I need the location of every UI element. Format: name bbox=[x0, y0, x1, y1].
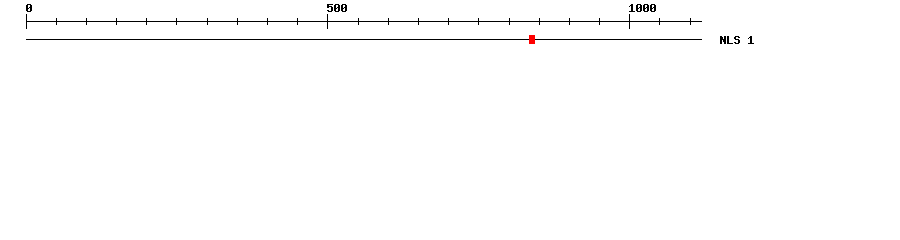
minor tick at 400 bbox=[267, 18, 268, 25]
minor tick at 650 bbox=[418, 18, 419, 25]
major tick at 500 bbox=[327, 14, 328, 29]
minor tick at 950 bbox=[599, 18, 600, 25]
minor tick at 100 bbox=[86, 18, 87, 25]
background bbox=[0, 0, 900, 58]
scale label 1000 bbox=[629, 4, 656, 12]
minor tick at 450 bbox=[297, 18, 298, 25]
scale label 0 bbox=[26, 4, 32, 12]
minor tick at 750 bbox=[478, 18, 479, 25]
minor tick at 800 bbox=[509, 18, 510, 25]
major tick at 0 bbox=[26, 14, 27, 29]
NLS motif red box bbox=[529, 35, 535, 44]
protein sequence backbone line bbox=[26, 39, 702, 40]
minor tick at 1100 bbox=[690, 18, 691, 25]
minor tick at 1050 bbox=[659, 18, 660, 25]
minor tick at 50 bbox=[56, 18, 57, 25]
minor tick at 150 bbox=[116, 18, 117, 25]
minor tick at 900 bbox=[569, 18, 570, 25]
track label NLS 1 bbox=[720, 36, 754, 44]
ruler axis line bbox=[26, 21, 702, 22]
minor tick at 850 bbox=[539, 18, 540, 25]
major tick at 1000 bbox=[629, 14, 630, 29]
minor tick at 550 bbox=[358, 18, 359, 25]
minor tick at 300 bbox=[207, 18, 208, 25]
minor tick at 350 bbox=[237, 18, 238, 25]
minor tick at 700 bbox=[448, 18, 449, 25]
minor tick at 600 bbox=[388, 18, 389, 25]
minor tick at 250 bbox=[176, 18, 177, 25]
minor tick at 200 bbox=[146, 18, 147, 25]
scale label 500 bbox=[327, 4, 347, 12]
